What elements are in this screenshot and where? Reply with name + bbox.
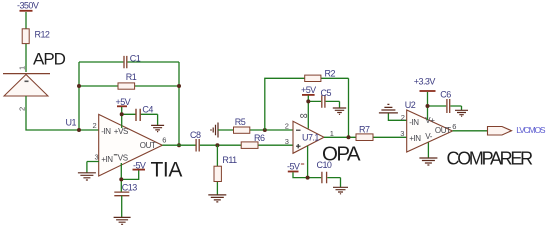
node junction xyxy=(120,112,124,116)
ground xyxy=(333,187,348,194)
resistor R6 xyxy=(241,133,265,149)
wire xyxy=(79,61,179,63)
svg-text:APD: APD xyxy=(33,49,66,68)
ground xyxy=(208,195,226,202)
comparator U2 xyxy=(405,100,453,152)
svg-text:R7: R7 xyxy=(359,125,370,135)
svg-text:2: 2 xyxy=(401,113,405,122)
wire xyxy=(293,172,308,177)
svg-text:R12: R12 xyxy=(35,30,50,40)
node junction xyxy=(215,143,219,147)
svg-text:2: 2 xyxy=(18,107,27,111)
power port +5V (U7.1) xyxy=(301,85,316,95)
wire xyxy=(324,136,407,138)
wire xyxy=(265,78,349,137)
node junction xyxy=(177,84,181,88)
svg-text:OUT: OUT xyxy=(140,141,156,150)
svg-text:OPA: OPA xyxy=(322,142,361,165)
wire xyxy=(121,171,138,180)
ground (inverted, U2 -IN) xyxy=(379,104,398,113)
svg-text:OUT: OUT xyxy=(435,126,451,135)
wire xyxy=(121,196,123,217)
capacitor C13 xyxy=(114,182,137,195)
svg-text:TIA: TIA xyxy=(151,158,183,181)
svg-text:-IN: -IN xyxy=(101,127,111,136)
wire xyxy=(78,62,80,130)
svg-text:-IN: -IN xyxy=(409,118,419,127)
svg-text:VS: VS xyxy=(118,153,128,162)
wire xyxy=(216,145,218,194)
capacitor C6 xyxy=(440,90,451,113)
resistor R2 xyxy=(305,69,336,82)
svg-text:C13: C13 xyxy=(122,182,137,192)
svg-text:R2: R2 xyxy=(325,69,336,79)
resistor R5 xyxy=(234,117,250,134)
svg-text:R11: R11 xyxy=(222,155,237,165)
wire xyxy=(25,12,27,29)
capacitor C8 xyxy=(190,130,201,152)
svg-text:C6: C6 xyxy=(440,90,451,100)
wire xyxy=(79,85,179,87)
node junction xyxy=(119,177,123,181)
svg-text:R1: R1 xyxy=(126,72,137,82)
power port +3.3V xyxy=(414,77,436,92)
svg-text:1: 1 xyxy=(330,129,334,138)
resistor R7 xyxy=(356,125,373,141)
svg-text:U1: U1 xyxy=(66,118,77,128)
svg-text:∞: ∞ xyxy=(300,110,308,122)
wire xyxy=(178,62,180,145)
svg-text:C8: C8 xyxy=(190,130,201,140)
svg-text:+5V: +5V xyxy=(301,85,316,95)
ground xyxy=(78,173,96,180)
wire xyxy=(307,96,309,129)
node junction xyxy=(77,84,81,88)
wire xyxy=(122,114,158,125)
svg-text:+IN: +IN xyxy=(409,134,421,143)
svg-text:2: 2 xyxy=(285,121,289,130)
ground xyxy=(333,108,346,114)
wire xyxy=(388,114,406,121)
svg-text:6: 6 xyxy=(162,136,166,145)
wire xyxy=(121,107,123,128)
svg-text:+3.3V: +3.3V xyxy=(414,77,436,87)
capacitor C10 xyxy=(317,160,332,183)
power port -5V (U7.1) xyxy=(287,162,304,172)
svg-text:U2: U2 xyxy=(405,100,416,110)
wire xyxy=(307,146,309,178)
capacitor C1 xyxy=(124,54,141,69)
svg-text:C1: C1 xyxy=(130,54,141,64)
svg-text:+5V: +5V xyxy=(116,97,131,107)
svg-text:C4: C4 xyxy=(142,104,153,114)
node junction xyxy=(177,143,181,147)
wire xyxy=(25,44,27,72)
power port +5V (U1) xyxy=(116,97,131,107)
wire xyxy=(453,130,488,132)
svg-text:3: 3 xyxy=(95,152,99,161)
svg-text:+VS: +VS xyxy=(114,127,128,136)
capacitor C4 xyxy=(136,104,153,121)
node junction xyxy=(77,128,81,132)
wire xyxy=(427,92,429,120)
op-amp U1 xyxy=(66,114,163,176)
svg-text:R6: R6 xyxy=(254,133,265,143)
svg-text:R5: R5 xyxy=(235,117,246,127)
wire xyxy=(120,163,122,192)
resistor R12 xyxy=(22,29,50,44)
svg-text:3: 3 xyxy=(400,129,404,138)
svg-text:LVCMOS: LVCMOS xyxy=(516,125,546,135)
ground (rotated, R5) xyxy=(211,123,218,138)
node junction xyxy=(306,176,310,180)
wire xyxy=(162,144,293,146)
ground xyxy=(419,158,437,165)
svg-text:2: 2 xyxy=(93,121,97,130)
wire xyxy=(308,178,341,187)
ground xyxy=(151,125,164,131)
node junction xyxy=(347,135,351,139)
wire xyxy=(308,101,339,107)
node junction xyxy=(263,128,267,132)
svg-text:1: 1 xyxy=(18,66,27,70)
wire xyxy=(427,143,429,158)
wire xyxy=(87,162,99,173)
capacitor C5 xyxy=(321,88,332,108)
svg-text:6: 6 xyxy=(452,122,456,131)
diode APD xyxy=(3,49,66,96)
svg-text:-5V: -5V xyxy=(287,162,300,172)
port LVCMOS xyxy=(488,125,546,135)
wire xyxy=(428,106,462,110)
svg-text:U7.1: U7.1 xyxy=(302,132,319,142)
power port -350V xyxy=(17,1,39,11)
wire xyxy=(218,129,293,131)
svg-text:+IN: +IN xyxy=(101,155,113,164)
ground xyxy=(114,217,131,224)
node junction xyxy=(306,99,310,103)
svg-text:V+: V+ xyxy=(425,116,435,125)
svg-text:3: 3 xyxy=(285,137,289,146)
resistor R1 xyxy=(118,72,137,89)
power port -5V (U1) xyxy=(133,160,146,170)
svg-text:COMPARER: COMPARER xyxy=(447,148,534,168)
svg-text:C5: C5 xyxy=(321,88,332,98)
ground xyxy=(455,110,468,116)
svg-text:V-: V- xyxy=(425,132,432,141)
op-amp U7.1 xyxy=(293,110,324,153)
node junction xyxy=(426,104,430,108)
svg-text:-350V: -350V xyxy=(17,1,39,11)
wire xyxy=(26,96,99,130)
resistor R11 xyxy=(214,155,237,182)
